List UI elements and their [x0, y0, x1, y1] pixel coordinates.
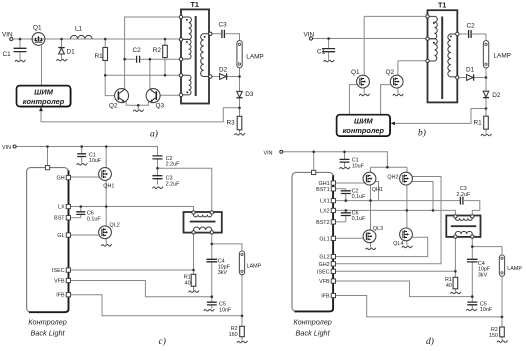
- svg-text:BST2: BST2: [316, 220, 329, 226]
- svg-text:ISEC: ISEC: [317, 269, 330, 275]
- svg-text:QH2: QH2: [387, 174, 398, 180]
- svg-text:QH1: QH1: [103, 183, 114, 189]
- svg-text:0,1uF: 0,1uF: [352, 216, 366, 222]
- svg-text:D2: D2: [219, 66, 228, 73]
- svg-text:c): c): [159, 336, 166, 347]
- svg-text:L1: L1: [75, 26, 83, 33]
- svg-text:Контролер: Контролер: [293, 318, 332, 327]
- svg-text:150: 150: [489, 333, 498, 339]
- svg-text:D3: D3: [245, 91, 254, 98]
- svg-text:LX2: LX2: [320, 208, 330, 214]
- svg-text:D2: D2: [492, 92, 501, 99]
- svg-text:ISEC: ISEC: [52, 268, 65, 274]
- svg-text:Q2: Q2: [386, 69, 395, 76]
- svg-text:GL1: GL1: [319, 236, 329, 242]
- svg-text:d): d): [426, 336, 434, 347]
- svg-text:IFB: IFB: [321, 294, 330, 300]
- svg-text:Q3: Q3: [156, 103, 165, 110]
- svg-text:Q2: Q2: [109, 103, 118, 110]
- svg-text:T1: T1: [191, 0, 199, 9]
- svg-text:QL3: QL3: [373, 226, 383, 232]
- svg-text:Q1: Q1: [33, 25, 42, 32]
- svg-text:LX1: LX1: [320, 199, 330, 205]
- svg-text:контролер: контролер: [343, 126, 385, 135]
- svg-text:a): a): [150, 129, 158, 140]
- svg-text:Back Light: Back Light: [30, 329, 65, 338]
- svg-text:VIN: VIN: [264, 150, 273, 156]
- svg-text:40: 40: [446, 283, 452, 289]
- svg-text:R1: R1: [474, 120, 483, 127]
- svg-text:C2: C2: [467, 23, 476, 30]
- svg-text:2.2uF: 2.2uF: [166, 181, 180, 187]
- svg-text:VFB: VFB: [54, 278, 65, 284]
- svg-text:D1: D1: [466, 66, 475, 73]
- svg-text:LX: LX: [58, 204, 65, 210]
- svg-text:ШИМ: ШИМ: [354, 117, 374, 126]
- svg-text:0.1uF: 0.1uF: [87, 216, 101, 222]
- svg-text:GL: GL: [57, 233, 64, 239]
- svg-text:R2: R2: [153, 47, 162, 54]
- svg-text:LAMP: LAMP: [246, 54, 263, 61]
- svg-text:3kV: 3kV: [478, 272, 488, 278]
- svg-text:Контролер: Контролер: [28, 318, 67, 327]
- svg-text:T1: T1: [438, 1, 446, 10]
- svg-text:2.2uF: 2.2uF: [456, 192, 470, 198]
- svg-text:GL2: GL2: [319, 255, 329, 261]
- svg-text:VFB: VFB: [319, 279, 330, 285]
- svg-text:10uF: 10uF: [352, 164, 365, 170]
- svg-text:QL4: QL4: [393, 241, 403, 247]
- svg-text:VIN: VIN: [304, 32, 315, 39]
- svg-text:10nF: 10nF: [219, 308, 232, 314]
- svg-text:R3: R3: [227, 120, 236, 127]
- svg-text:C1: C1: [317, 49, 326, 56]
- svg-text:GH: GH: [57, 175, 65, 181]
- svg-text:R1: R1: [95, 53, 104, 60]
- svg-text:D1: D1: [67, 49, 76, 56]
- svg-text:GH2: GH2: [319, 262, 330, 268]
- svg-text:ШИМ: ШИМ: [34, 88, 54, 97]
- svg-text:Back Light: Back Light: [296, 329, 331, 338]
- svg-text:160: 160: [229, 332, 238, 338]
- svg-text:10nF: 10nF: [480, 307, 493, 313]
- svg-text:C1: C1: [3, 51, 12, 58]
- svg-text:LAMP: LAMP: [494, 53, 511, 60]
- svg-text:VIN: VIN: [2, 32, 13, 39]
- svg-text:BST: BST: [54, 216, 65, 222]
- svg-text:0,1uF: 0,1uF: [352, 194, 366, 200]
- svg-text:C3: C3: [219, 22, 228, 29]
- svg-text:b): b): [418, 128, 426, 139]
- svg-text:контролер: контролер: [23, 97, 65, 106]
- svg-text:Q1: Q1: [351, 69, 360, 76]
- svg-text:40: 40: [185, 280, 191, 286]
- svg-text:LAMP: LAMP: [507, 266, 522, 272]
- svg-text:QH1: QH1: [372, 187, 383, 193]
- svg-text:BST1: BST1: [316, 187, 329, 193]
- svg-text:VIN: VIN: [2, 145, 11, 151]
- svg-text:QL2: QL2: [110, 223, 120, 229]
- svg-text:IFB: IFB: [56, 293, 65, 299]
- svg-text:10uF: 10uF: [89, 158, 102, 164]
- svg-text:3kV: 3kV: [218, 270, 228, 276]
- svg-text:2.2uF: 2.2uF: [166, 162, 180, 168]
- svg-text:LAMP: LAMP: [247, 264, 262, 270]
- svg-text:C2: C2: [133, 47, 142, 54]
